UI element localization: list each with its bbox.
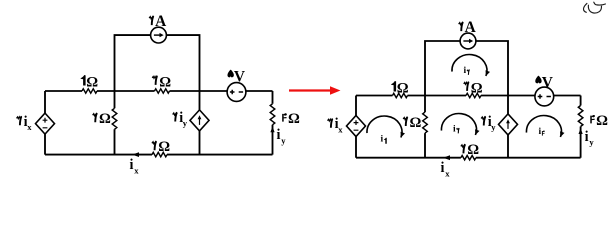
annotation: Arabic text (hal) top-right: [584, 2, 606, 13]
svg-text:A: A: [155, 13, 166, 30]
svg-text:Ω: Ω: [471, 80, 483, 96]
current arrow ix of circuit-R: [443, 155, 450, 160]
label 3ix of circuit-L: [17, 114, 33, 132]
label 2ohm vertical of circuit-R: [403, 115, 421, 131]
label 2A of circuit-R: [459, 19, 476, 36]
current arrow iy of circuit-L: [270, 126, 274, 132]
svg-text:i: i: [277, 127, 281, 143]
wire: circuit-R middle rail: [356, 95, 581, 97]
svg-text:i: i: [585, 129, 589, 145]
svg-text:Ω: Ω: [397, 80, 409, 96]
dependent current source 2iy of circuit-R: [499, 114, 518, 135]
wire: circuit-L top loop (left vertical, top rail, right vertical): [115, 35, 200, 91]
svg-text:x: x: [338, 124, 343, 134]
resistor 1ohm on middle rail of circuit-R: [393, 93, 408, 97]
label 2ohm bottom of circuit-L: [152, 139, 170, 155]
label 2A of circuit-L: [149, 13, 166, 30]
svg-text:x: x: [27, 122, 32, 132]
label 2ohm bottom of circuit-R: [461, 142, 479, 158]
svg-text:x: x: [445, 168, 450, 178]
resistor 2ohm vertical of circuit-R: [423, 112, 428, 133]
resistor 3ohm on middle rail of circuit-R: [466, 93, 481, 97]
svg-text:i: i: [453, 125, 456, 135]
current source 2A of circuit-L: [151, 27, 167, 43]
svg-text:i: i: [441, 160, 445, 176]
label 4ohm of circuit-L: [282, 111, 300, 127]
red transformation arrow: [289, 86, 341, 94]
svg-text:i: i: [130, 157, 134, 173]
svg-text:y: y: [491, 122, 496, 132]
svg-text:Ω: Ω: [99, 111, 111, 127]
wire: circuit-R dependent-source branch vertical: [507, 96, 509, 158]
mesh current arrow i1: [367, 116, 405, 144]
svg-text:Ω: Ω: [86, 74, 98, 90]
svg-text:y: y: [589, 137, 594, 147]
current arrow ix of circuit-L: [132, 152, 139, 157]
mesh current arrow i4: [526, 116, 564, 137]
svg-text:y: y: [281, 135, 286, 145]
wire: circuit-R bottom rail: [356, 157, 581, 159]
label 2iy of circuit-L: [173, 110, 188, 128]
current arrow iy of circuit-R: [579, 128, 583, 134]
dependent voltage source 3ix of circuit-R: [347, 116, 366, 137]
svg-text:i: i: [539, 127, 542, 137]
label 2ohm vertical of circuit-L: [93, 111, 111, 127]
svg-text:Ω: Ω: [288, 111, 300, 127]
voltage source 5V of circuit-L: [227, 83, 246, 102]
wire: circuit-R right edge vertical: [580, 96, 582, 158]
voltage source 5V of circuit-R: [535, 87, 554, 106]
resistor 3ohm on middle rail of circuit-L: [155, 89, 170, 93]
label iy of circuit-R: [585, 129, 595, 147]
wire: circuit-L middle rail: [45, 90, 273, 92]
label ix of circuit-L: [130, 157, 140, 175]
label 5V of circuit-R: [535, 74, 553, 91]
resistor 1ohm on middle rail of circuit-L: [82, 89, 97, 93]
label 5V of circuit-L: [227, 68, 245, 85]
label 3ix of circuit-R: [328, 116, 344, 134]
resistor 2ohm on bottom rail of circuit-L: [152, 152, 167, 156]
svg-text:y: y: [183, 118, 188, 128]
wire: circuit-R left edge vertical: [355, 96, 357, 158]
wire: circuit-L dependent-source branch vertical: [199, 91, 201, 155]
svg-text:Ω: Ω: [159, 74, 171, 90]
wire: circuit-L left edge vertical: [44, 91, 46, 155]
svg-text:Ω: Ω: [158, 139, 170, 155]
resistor 2ohm on bottom rail of circuit-R: [461, 156, 476, 160]
svg-text:V: V: [234, 68, 245, 85]
svg-text:Ω: Ω: [467, 142, 479, 158]
label 1ohm of circuit-L: [80, 74, 98, 90]
svg-text:i: i: [381, 135, 384, 145]
wire: circuit-L bottom rail: [45, 154, 273, 156]
resistor 4ohm of circuit-R: [578, 106, 583, 127]
label 1ohm of circuit-R: [391, 80, 409, 96]
wire: circuit-R 2ohm middle branch vertical: [424, 96, 426, 158]
svg-text:Ω: Ω: [410, 115, 422, 131]
svg-text:V: V: [542, 74, 553, 91]
current source 2A of circuit-R: [460, 33, 476, 49]
svg-text:Ω: Ω: [596, 113, 608, 129]
svg-text:A: A: [465, 19, 476, 36]
dependent voltage source 3ix of circuit-L: [36, 113, 55, 134]
dependent current source 2iy of circuit-L: [190, 110, 209, 131]
label ix of circuit-R: [441, 160, 451, 178]
svg-text:x: x: [134, 165, 139, 175]
label iy of circuit-L: [277, 127, 287, 145]
wire: circuit-L right edge vertical: [272, 91, 274, 155]
mesh current arrow i2: [452, 55, 490, 76]
label 4ohm of circuit-R: [590, 113, 608, 129]
wire: circuit-L 2ohm middle branch vertical: [114, 91, 116, 155]
mesh current arrow i3: [441, 114, 479, 135]
resistor 2ohm vertical of circuit-L: [112, 108, 117, 129]
label 2iy of circuit-R: [481, 114, 496, 132]
label 3ohm of circuit-L: [152, 74, 171, 90]
label 3ohm of circuit-R: [464, 80, 483, 96]
wire: circuit-R top loop (left vertical, top rail, right vertical): [425, 41, 508, 96]
resistor 4ohm of circuit-L: [270, 104, 275, 125]
svg-text:i: i: [464, 66, 467, 76]
